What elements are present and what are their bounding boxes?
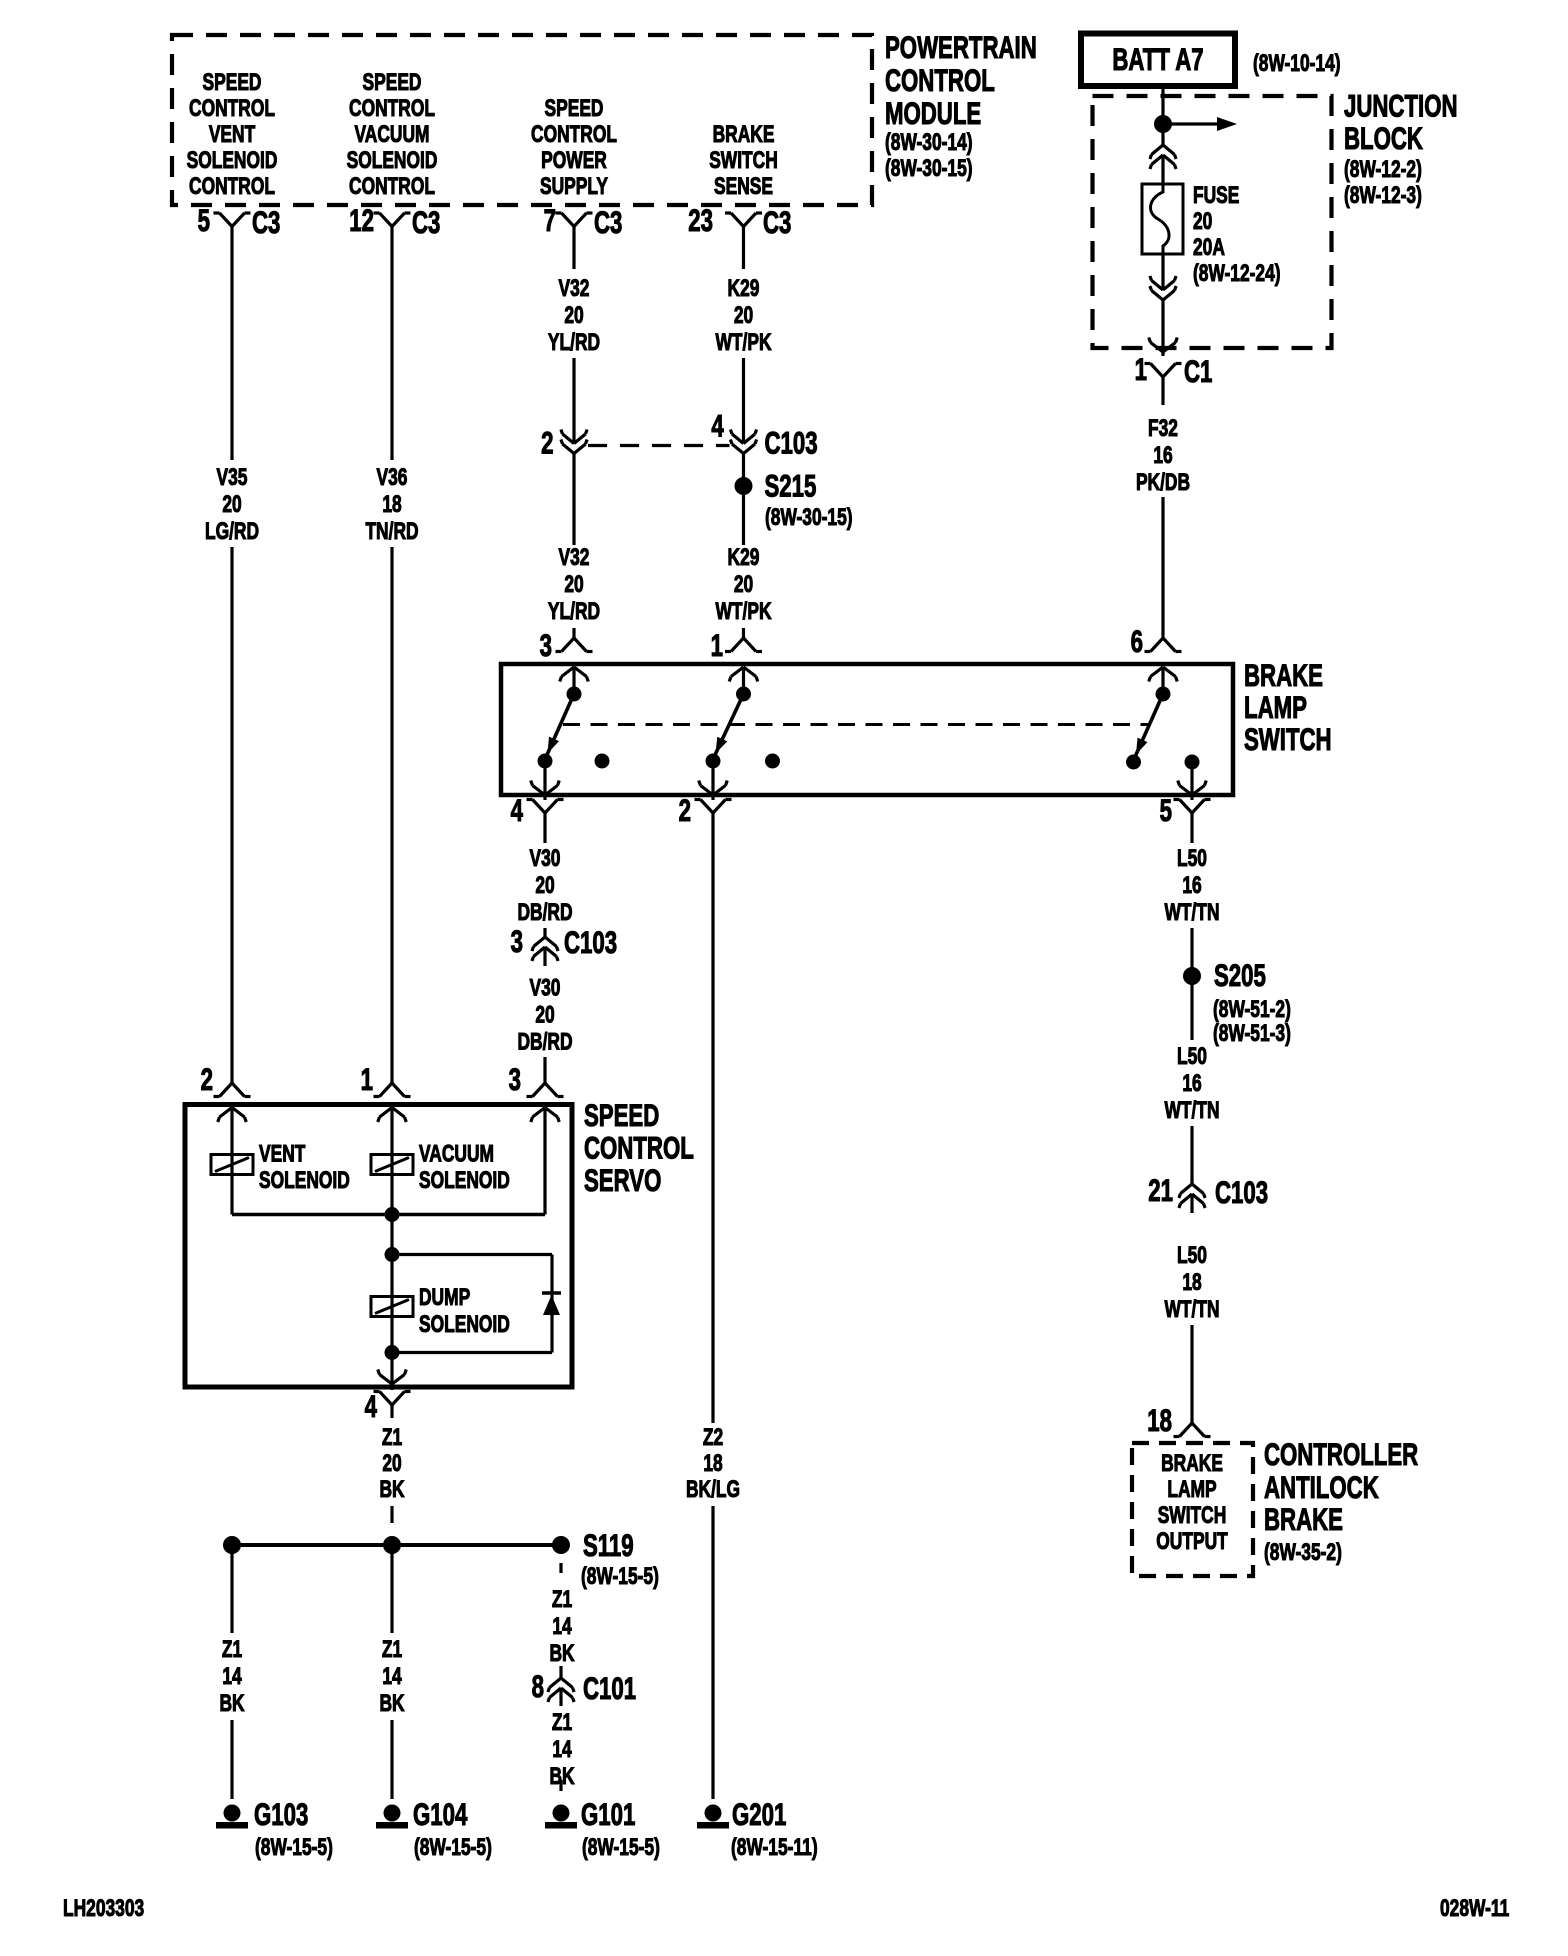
svg-text:Z1: Z1 [552, 1708, 572, 1736]
svg-text:14: 14 [552, 1735, 571, 1763]
svg-text:CONTROL: CONTROL [189, 94, 275, 122]
brake switch pin 3 connector [540, 627, 593, 663]
svg-text:16: 16 [1182, 871, 1201, 899]
svg-text:(8W-30-15): (8W-30-15) [765, 503, 853, 531]
svg-text:2: 2 [201, 1061, 213, 1097]
wire L50 below splice [1190, 976, 1193, 1040]
dashed connector link line C103 [588, 444, 730, 447]
connector C103 pin 4 with label [711, 408, 817, 461]
speed control servo box [185, 1105, 572, 1388]
splice S205 [1183, 957, 1291, 1047]
brake switch pin 5 connector [1160, 792, 1211, 828]
BATT A7 feed box [1081, 34, 1235, 87]
wire K29 below splice [742, 486, 745, 545]
switch 2 spare contact [765, 754, 780, 769]
svg-text:C3: C3 [763, 204, 791, 240]
svg-text:(8W-51-3): (8W-51-3) [1213, 1019, 1291, 1047]
svg-text:L50: L50 [1177, 1241, 1207, 1269]
vacuum solenoid [371, 1140, 510, 1194]
svg-text:PK/DB: PK/DB [1136, 468, 1190, 496]
PCM label SPEED CONTROL VACUUM SOLENOID CONTROL [347, 68, 438, 200]
wire into fuse [1161, 155, 1164, 184]
svg-text:JUNCTION: JUNCTION [1344, 88, 1458, 124]
svg-text:1: 1 [361, 1061, 373, 1097]
svg-text:14: 14 [382, 1662, 401, 1690]
svg-text:4: 4 [511, 792, 523, 828]
switch 3 pole [1126, 687, 1171, 770]
svg-text:BRAKE: BRAKE [1264, 1501, 1343, 1537]
wire connector to C1 [1161, 300, 1164, 356]
wire F32 to brake lamp switch [1161, 497, 1164, 638]
wire label Z1 14 BK lower right [549, 1708, 575, 1790]
svg-text:S205: S205 [1214, 957, 1266, 993]
switch 2 exit stem [699, 761, 728, 800]
servo pin 1 connector [361, 1061, 411, 1097]
svg-text:SPEED: SPEED [363, 68, 422, 96]
wire to C101 [559, 1666, 562, 1678]
svg-text:(8W-12-24): (8W-12-24) [1193, 259, 1281, 287]
svg-text:Z2: Z2 [703, 1423, 723, 1451]
junction block splice dot [1154, 115, 1172, 133]
svg-text:ANTILOCK: ANTILOCK [1264, 1469, 1379, 1505]
connector C101 pin 8 [532, 1668, 636, 1706]
vacuum solenoid wire [390, 1108, 393, 1215]
diode CR1 [542, 1293, 561, 1315]
BRAKE LAMP SWITCH OUTPUT label [1156, 1449, 1227, 1555]
svg-text:V32: V32 [559, 274, 590, 302]
svg-text:V36: V36 [377, 463, 408, 491]
svg-text:20: 20 [734, 570, 753, 598]
svg-text:SUPPLY: SUPPLY [540, 172, 608, 200]
svg-text:V32: V32 [559, 543, 590, 571]
wire V32 segment from pin 7 [572, 227, 575, 270]
svg-text:SPEED: SPEED [545, 94, 604, 122]
powertrain control module box [172, 35, 872, 205]
wire into ground G103 [230, 1720, 233, 1799]
svg-text:F32: F32 [1148, 414, 1178, 442]
svg-text:18: 18 [382, 490, 401, 518]
wire label Z1 20 BK [379, 1423, 405, 1503]
wire Z1 to G103 [230, 1545, 233, 1633]
svg-text:(8W-15-11): (8W-15-11) [731, 1833, 818, 1861]
svg-text:1: 1 [1135, 351, 1147, 387]
pin 12 C3 connector [349, 202, 440, 240]
wire V35 lower segment [230, 547, 233, 1083]
wire Z1 to G104 [390, 1545, 393, 1633]
svg-text:(8W-30-15): (8W-30-15) [885, 154, 973, 182]
connector C1 pin 1 [1135, 351, 1213, 389]
CONTROLLER ANTILOCK BRAKE title [1264, 1436, 1419, 1566]
svg-text:20: 20 [535, 1001, 554, 1029]
svg-text:16: 16 [1182, 1069, 1201, 1097]
vent solenoid wire [230, 1108, 233, 1215]
ground G201 [697, 1796, 818, 1861]
svg-text:18: 18 [703, 1449, 722, 1477]
footer sheet number 028W-11 [1440, 1894, 1509, 1922]
svg-text:BK: BK [219, 1689, 245, 1717]
svg-text:K29: K29 [728, 543, 760, 571]
wire label V30 20 DB/RD upper [517, 844, 572, 926]
svg-text:CONTROL: CONTROL [584, 1130, 694, 1166]
wire label F32 16 PK/DB [1136, 414, 1190, 496]
switch 2 entry chevron [729, 667, 758, 694]
svg-text:3: 3 [511, 923, 523, 959]
svg-text:S215: S215 [765, 468, 817, 504]
svg-text:C1: C1 [1184, 353, 1212, 389]
svg-text:FUSE: FUSE [1193, 181, 1239, 209]
svg-text:20: 20 [222, 490, 241, 518]
wire label V36 18 TN/RD [365, 463, 418, 545]
svg-text:5: 5 [1160, 792, 1172, 828]
svg-text:DB/RD: DB/RD [517, 1028, 572, 1056]
svg-text:SWITCH: SWITCH [1158, 1501, 1227, 1529]
svg-text:3: 3 [509, 1061, 521, 1097]
wire label K29 20 WT/PK lower [715, 543, 772, 625]
dashed wire into ground G101 [559, 1780, 562, 1791]
svg-text:Z1: Z1 [382, 1423, 402, 1451]
splice S119 [552, 1527, 659, 1590]
PCM label BRAKE SWITCH SENSE [709, 120, 778, 200]
svg-text:CONTROL: CONTROL [189, 172, 275, 200]
svg-text:18: 18 [1182, 1268, 1201, 1296]
svg-text:(8W-15-5): (8W-15-5) [255, 1833, 333, 1861]
wire Z2 to ground [711, 1506, 714, 1799]
svg-text:BRAKE: BRAKE [1161, 1449, 1223, 1477]
svg-text:VENT: VENT [209, 120, 255, 148]
svg-text:Z1: Z1 [382, 1635, 402, 1663]
wire bus to dump solenoid [390, 1215, 393, 1353]
svg-text:POWER: POWER [541, 146, 607, 174]
svg-text:21: 21 [1148, 1172, 1173, 1208]
svg-text:YL/RD: YL/RD [548, 597, 600, 625]
wire label Z2 18 BK/LG [686, 1423, 740, 1503]
svg-text:SOLENOID: SOLENOID [347, 146, 438, 174]
splice dot left [223, 1536, 241, 1554]
label 8W-10-14 [1253, 49, 1341, 77]
wire label V32 20 YL/RD lower [548, 543, 600, 625]
svg-text:C3: C3 [594, 204, 622, 240]
svg-text:2: 2 [679, 792, 691, 828]
svg-text:LG/RD: LG/RD [205, 517, 259, 545]
servo entry chevron pin 1 [378, 1108, 407, 1123]
junction block exit chevron [1149, 338, 1178, 353]
servo pin 4 connector [365, 1388, 411, 1424]
svg-text:6: 6 [1131, 623, 1143, 659]
switch 1 exit stem [531, 761, 560, 800]
svg-text:C3: C3 [252, 204, 280, 240]
svg-text:(8W-10-14): (8W-10-14) [1253, 49, 1341, 77]
svg-text:(8W-15-5): (8W-15-5) [582, 1833, 660, 1861]
svg-text:SOLENOID: SOLENOID [419, 1310, 510, 1338]
dump branch top dot [385, 1247, 400, 1262]
wire label Z1 14 BK middle [379, 1635, 405, 1717]
servo pin 2 connector [201, 1061, 251, 1097]
svg-text:BATT A7: BATT A7 [1112, 41, 1203, 77]
svg-text:1: 1 [711, 627, 723, 663]
svg-text:CONTROL: CONTROL [885, 62, 995, 98]
vent solenoid [211, 1140, 350, 1194]
svg-text:BRAKE: BRAKE [1244, 657, 1323, 693]
wire label V32 20 YL/RD upper [548, 274, 600, 356]
svg-text:VENT: VENT [259, 1140, 305, 1168]
wire label V30 20 DB/RD lower [517, 974, 572, 1056]
brake lamp switch box [501, 664, 1233, 795]
dump solenoid [371, 1283, 510, 1338]
servo entry chevron pin 2 [218, 1108, 247, 1123]
svg-text:CONTROL: CONTROL [349, 94, 435, 122]
svg-text:LAMP: LAMP [1167, 1475, 1216, 1503]
wire V32 to brake lamp switch [572, 628, 575, 638]
diode loop wires [392, 1255, 552, 1353]
servo entry chevron pin 3 [531, 1108, 560, 1123]
BRAKE LAMP SWITCH title [1244, 657, 1332, 757]
svg-text:14: 14 [552, 1612, 571, 1640]
svg-text:20: 20 [535, 871, 554, 899]
servo pin 3 connector [509, 1061, 564, 1097]
svg-text:BK: BK [379, 1475, 405, 1503]
svg-text:20: 20 [1193, 207, 1212, 235]
svg-text:028W-11: 028W-11 [1440, 1894, 1509, 1922]
wire fuse to connector [1161, 254, 1164, 290]
svg-text:BK: BK [379, 1689, 405, 1717]
wire label V35 20 LG/RD [205, 463, 259, 545]
svg-text:C103: C103 [1215, 1174, 1268, 1210]
switch 3 output contact [1185, 755, 1200, 770]
svg-text:(8W-35-2): (8W-35-2) [1264, 1538, 1342, 1566]
svg-text:20: 20 [382, 1449, 401, 1477]
splice S215 [735, 468, 853, 531]
svg-text:(8W-12-3): (8W-12-3) [1344, 181, 1422, 209]
svg-text:VACUUM: VACUUM [354, 120, 429, 148]
svg-text:SOLENOID: SOLENOID [187, 146, 278, 174]
brake switch pin 1 connector [711, 627, 762, 663]
brake switch pin 6 connector [1131, 623, 1182, 659]
switch 1 entry chevron [560, 667, 589, 694]
wire label L50 16 WT/TN lower [1164, 1042, 1219, 1124]
wire V36 upper segment [390, 227, 393, 461]
wire Z2 from brake switch pin 2 [711, 813, 714, 1423]
svg-text:C3: C3 [412, 204, 440, 240]
wire L50 from pin 5 [1190, 813, 1193, 843]
dashed wire Z1 to splice S119 [390, 1506, 393, 1523]
svg-text:L50: L50 [1177, 844, 1207, 872]
wire L50 to controller [1190, 1325, 1193, 1423]
switch 3 exit stem [1178, 762, 1207, 800]
wire label Z1 14 BK upper right [549, 1585, 575, 1667]
svg-text:(8W-15-5): (8W-15-5) [581, 1562, 659, 1590]
feed arrow to other circuits [1163, 117, 1237, 131]
svg-text:14: 14 [222, 1662, 241, 1690]
dashed wire below S119 [559, 1563, 562, 1573]
wire L50 to S205 [1190, 928, 1193, 976]
wire label L50 16 WT/TN upper [1164, 844, 1219, 926]
servo bus junction dot [385, 1207, 400, 1222]
svg-text:(8W-30-14): (8W-30-14) [885, 128, 973, 156]
svg-text:C101: C101 [583, 1670, 636, 1706]
wire into ground G104 [390, 1720, 393, 1799]
switch 2 pole [706, 687, 752, 769]
svg-text:8: 8 [532, 1668, 544, 1704]
svg-text:SWITCH: SWITCH [1244, 721, 1332, 757]
svg-text:OUTPUT: OUTPUT [1156, 1527, 1227, 1555]
svg-text:BK/LG: BK/LG [686, 1475, 740, 1503]
wire V30 from pin 4 [543, 813, 546, 843]
svg-text:2: 2 [541, 425, 553, 461]
svg-text:(8W-15-5): (8W-15-5) [414, 1833, 492, 1861]
wire V32 segment to C103 [572, 358, 575, 444]
svg-text:SPEED: SPEED [203, 68, 262, 96]
svg-text:V35: V35 [217, 463, 248, 491]
svg-text:20: 20 [564, 301, 583, 329]
wire label L50 18 WT/TN [1164, 1241, 1219, 1323]
svg-text:WT/TN: WT/TN [1164, 1096, 1219, 1124]
controller antilock brake dashed box [1132, 1443, 1253, 1576]
switch 1 spare contact [595, 754, 610, 769]
connector C103 pin 21 [1148, 1172, 1268, 1210]
svg-text:BRAKE: BRAKE [713, 120, 775, 148]
svg-text:G101: G101 [581, 1796, 635, 1832]
servo exit wire [378, 1353, 407, 1391]
svg-text:SWITCH: SWITCH [709, 146, 778, 174]
svg-text:V30: V30 [530, 844, 561, 872]
wire K29 segment to C103 [742, 358, 745, 444]
wire label K29 20 WT/PK upper [715, 274, 772, 356]
svg-text:LH203303: LH203303 [63, 1894, 144, 1922]
wire V30 below C103 [543, 947, 546, 966]
switch 1 pole [538, 687, 582, 769]
svg-text:WT/PK: WT/PK [715, 597, 772, 625]
wire label Z1 14 BK left [219, 1635, 245, 1717]
svg-text:SOLENOID: SOLENOID [419, 1166, 510, 1194]
svg-text:SPEED: SPEED [584, 1097, 659, 1133]
splice S119 bus [232, 1543, 561, 1547]
svg-text:S119: S119 [583, 1527, 634, 1563]
wire below C101 [559, 1688, 562, 1706]
svg-text:CONTROL: CONTROL [349, 172, 435, 200]
fuse labels [1193, 181, 1281, 287]
svg-text:CONTROL: CONTROL [531, 120, 617, 148]
svg-text:DB/RD: DB/RD [517, 898, 572, 926]
svg-text:G104: G104 [413, 1796, 467, 1832]
svg-text:20A: 20A [1193, 233, 1225, 261]
svg-text:(8W-12-2): (8W-12-2) [1344, 155, 1422, 183]
svg-text:WT/PK: WT/PK [715, 328, 772, 356]
svg-text:DUMP: DUMP [419, 1283, 470, 1311]
svg-text:TN/RD: TN/RD [365, 517, 418, 545]
ground G104 [376, 1796, 492, 1861]
connector C103 pin 2 [541, 425, 587, 461]
junction connector chevrons down [1150, 276, 1176, 300]
svg-text:YL/RD: YL/RD [548, 328, 600, 356]
wire V32 below C103 [572, 454, 575, 546]
wire V30 to C103 [543, 928, 546, 937]
wire L50 below C103 [1190, 1194, 1193, 1213]
svg-text:MODULE: MODULE [885, 95, 981, 131]
svg-text:SOLENOID: SOLENOID [259, 1166, 350, 1194]
wire V30 to servo [543, 1057, 546, 1083]
svg-text:C103: C103 [564, 924, 617, 960]
PCM label SPEED CONTROL POWER SUPPLY [531, 94, 617, 200]
pin 5 C3 connector [198, 202, 281, 240]
splice dot middle [383, 1536, 401, 1554]
pin 23 C3 connector [688, 202, 791, 240]
svg-text:20: 20 [564, 570, 583, 598]
ground G101 [545, 1796, 660, 1861]
svg-text:20: 20 [734, 301, 753, 329]
svg-text:3: 3 [540, 627, 552, 663]
connector C103 pin 3 [511, 923, 617, 961]
svg-text:SERVO: SERVO [584, 1162, 661, 1198]
svg-text:Z1: Z1 [222, 1635, 242, 1663]
footer sheet number LH203303 [63, 1894, 144, 1922]
wire K29 segment from pin 23 [742, 227, 745, 270]
pin 7 C3 connector [544, 202, 623, 240]
svg-text:23: 23 [688, 202, 713, 238]
wire V36 lower segment [390, 547, 393, 1083]
wire K29 below C103 [742, 454, 745, 487]
junction connector chevrons up [1150, 145, 1176, 169]
svg-text:G103: G103 [254, 1796, 308, 1832]
junction block dashed box [1093, 96, 1332, 348]
svg-text:5: 5 [198, 202, 210, 238]
svg-text:WT/TN: WT/TN [1164, 898, 1219, 926]
JUNCTION BLOCK title [1344, 88, 1458, 209]
svg-text:LAMP: LAMP [1244, 689, 1307, 725]
svg-text:CONTROLLER: CONTROLLER [1264, 1436, 1419, 1472]
svg-text:Z1: Z1 [552, 1585, 572, 1613]
wire Z1 from servo pin 4 [390, 1405, 393, 1418]
svg-text:WT/TN: WT/TN [1164, 1295, 1219, 1323]
controller pin 18 connector [1147, 1402, 1210, 1438]
brake switch pin 4 connector [511, 792, 564, 828]
svg-text:BK: BK [549, 1639, 575, 1667]
svg-text:L50: L50 [1177, 1042, 1207, 1070]
wire F32 upper segment [1161, 377, 1164, 405]
svg-text:12: 12 [349, 202, 374, 238]
svg-text:4: 4 [711, 408, 723, 444]
POWERTRAIN CONTROL MODULE title [885, 29, 1037, 182]
svg-text:7: 7 [544, 202, 556, 238]
dump branch bottom dot [385, 1345, 400, 1360]
wire L50 to C103 [1190, 1126, 1193, 1184]
ground G103 [216, 1796, 333, 1861]
svg-text:VACUUM: VACUUM [419, 1140, 494, 1168]
svg-text:V30: V30 [530, 974, 561, 1002]
PCM label SPEED CONTROL VENT SOLENOID CONTROL [187, 68, 278, 200]
svg-text:SENSE: SENSE [714, 172, 773, 200]
wire V35 upper segment [230, 227, 233, 461]
servo internal bus [232, 1213, 545, 1216]
svg-text:16: 16 [1153, 441, 1172, 469]
svg-text:BLOCK: BLOCK [1344, 120, 1423, 156]
svg-text:POWERTRAIN: POWERTRAIN [885, 29, 1037, 65]
switch gang dashed link [563, 723, 1149, 726]
brake switch pin 2 connector [679, 792, 732, 828]
SPEED CONTROL SERVO title [584, 1097, 694, 1198]
servo pin 3 internal wire [543, 1108, 546, 1215]
svg-text:18: 18 [1147, 1402, 1172, 1438]
wire from BATT A7 into junction block [1161, 86, 1164, 145]
svg-text:G201: G201 [732, 1796, 786, 1832]
wire K29 to brake lamp switch [742, 628, 745, 638]
fuse 20 20A [1142, 184, 1183, 254]
switch 3 entry chevron [1149, 667, 1178, 694]
svg-text:K29: K29 [728, 274, 760, 302]
svg-text:C103: C103 [765, 425, 818, 461]
svg-text:4: 4 [365, 1388, 377, 1424]
